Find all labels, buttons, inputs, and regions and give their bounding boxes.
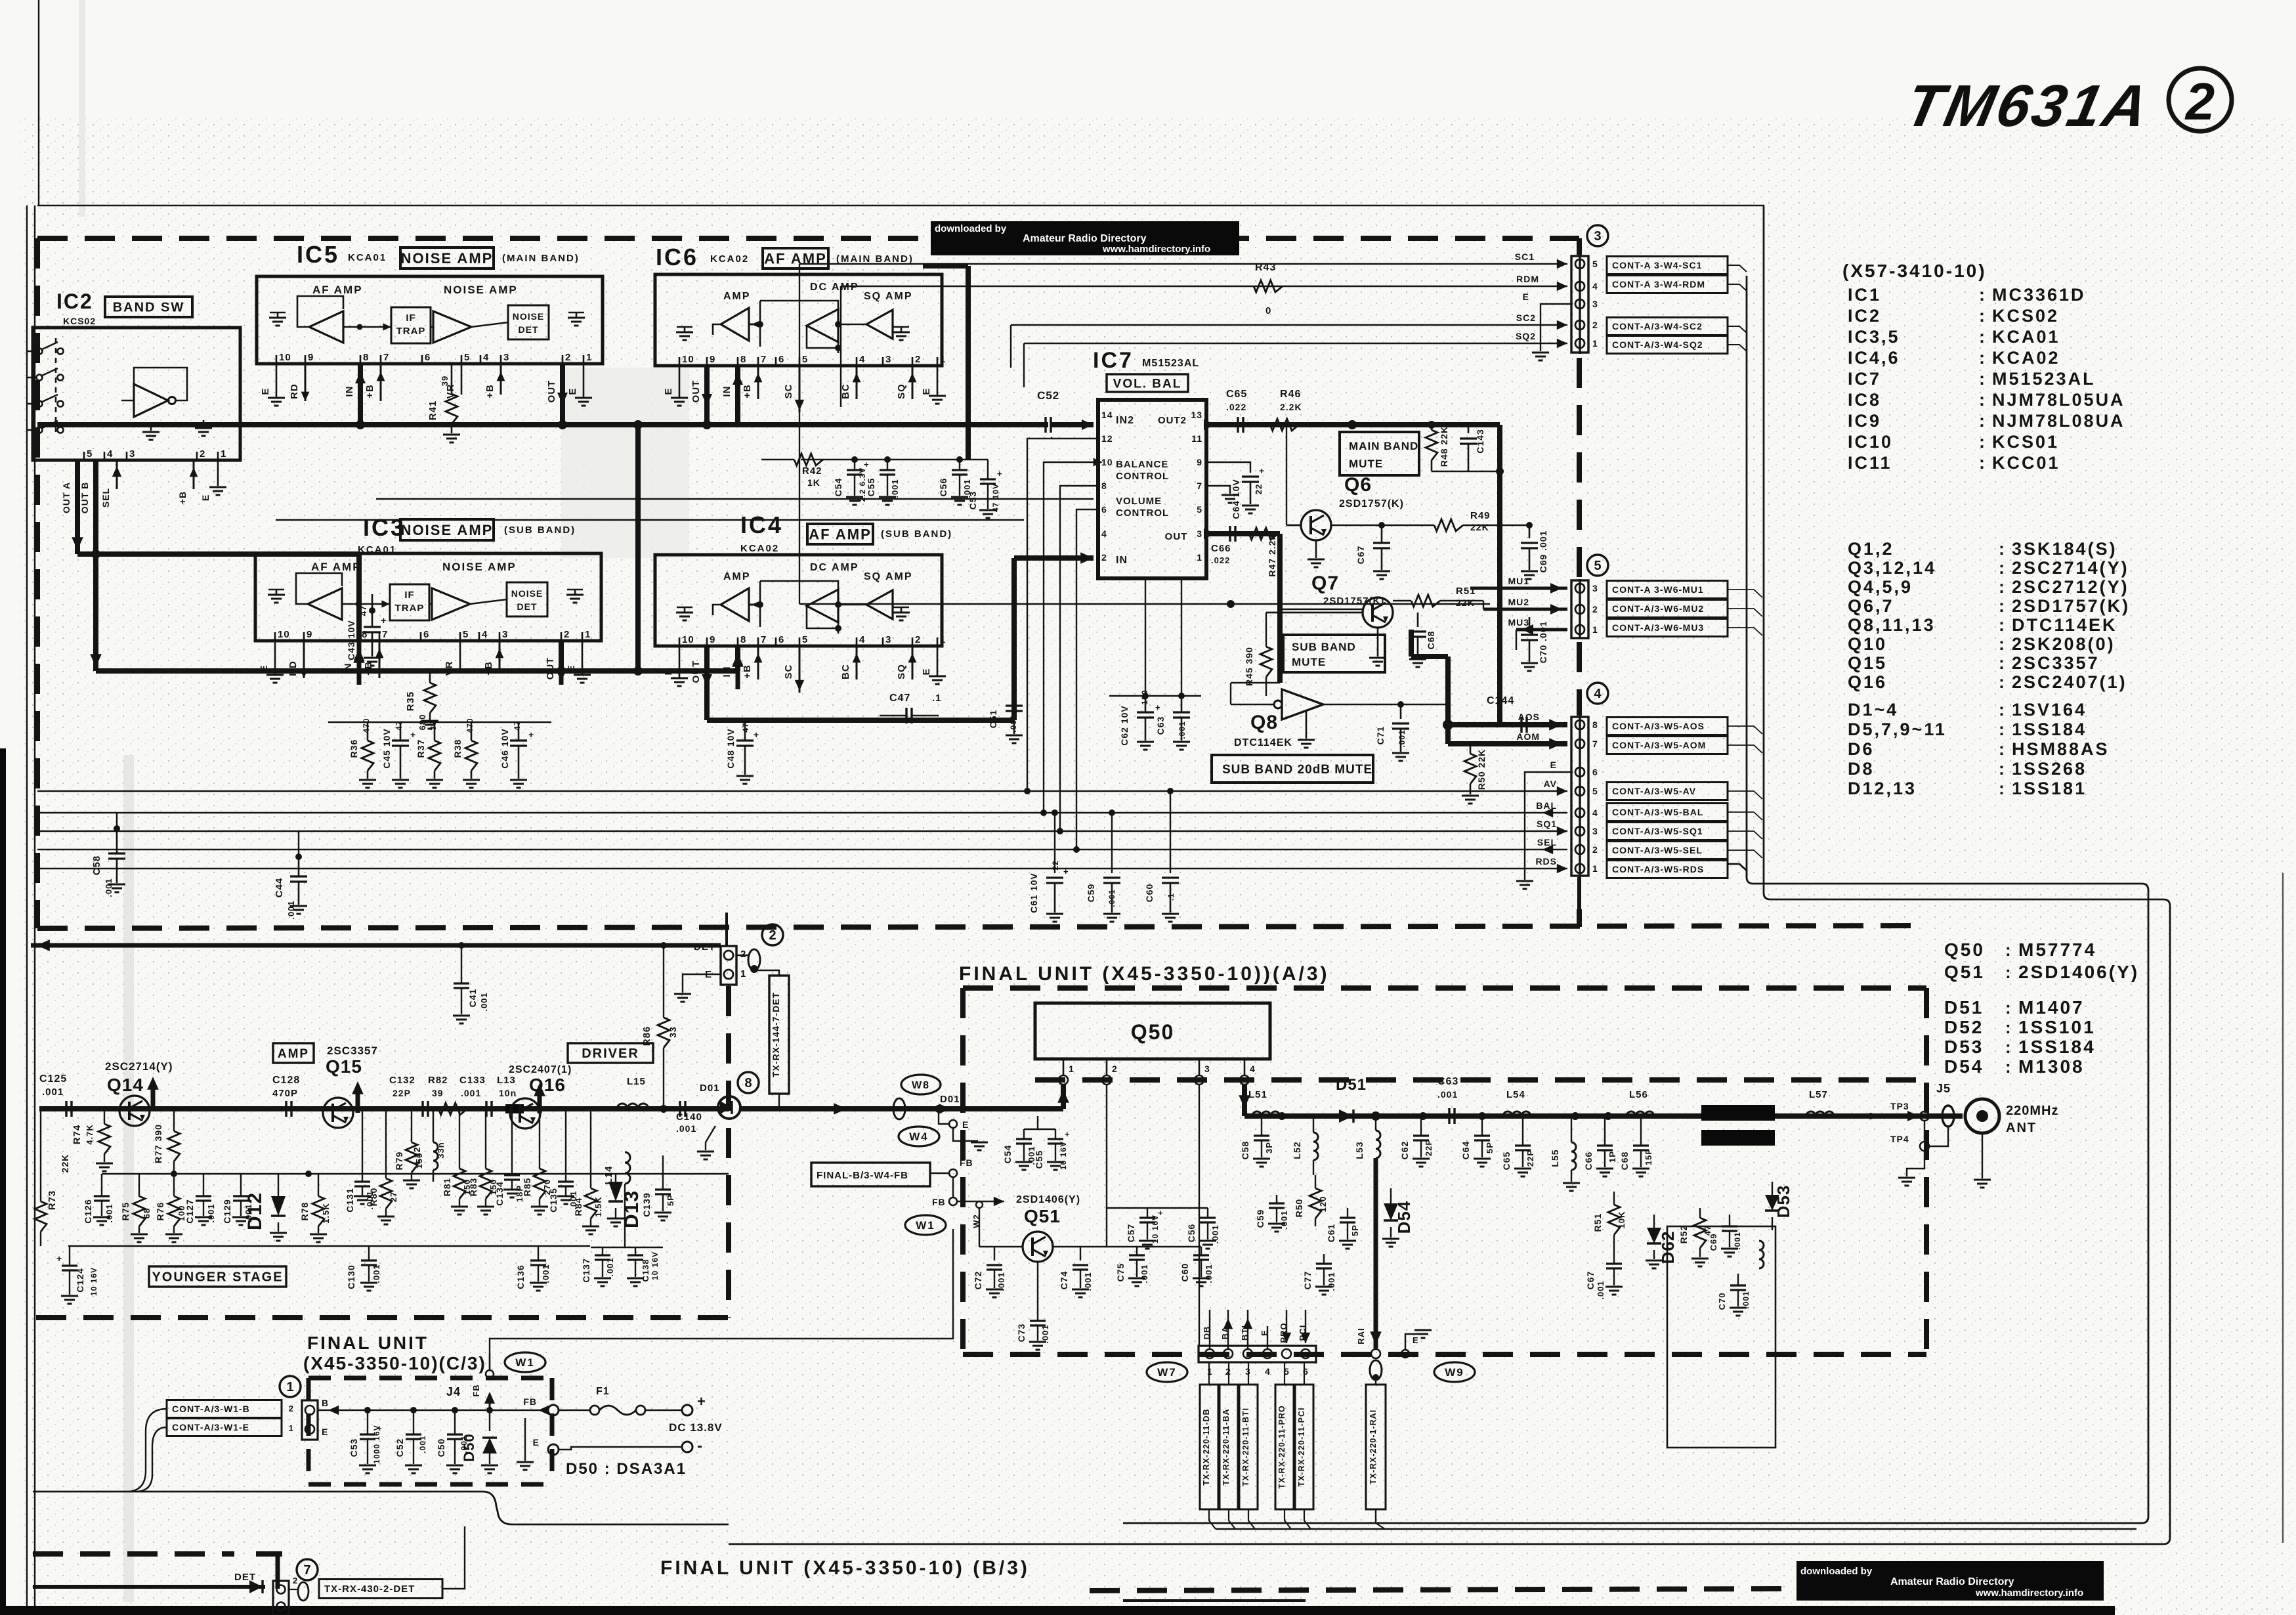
svg-text:C41: C41 [467, 989, 478, 1008]
svg-text:C64 10V: C64 10V [1231, 479, 1241, 519]
svg-text::: : [1999, 720, 2005, 739]
svg-text:W1: W1 [515, 1356, 535, 1369]
svg-text:1SS184: 1SS184 [2018, 1037, 2096, 1057]
svg-text:FB: FB [960, 1157, 973, 1168]
svg-text:7: 7 [761, 354, 767, 365]
svg-text:SC: SC [783, 384, 794, 399]
svg-text:CONT-A 3-W6-MU1: CONT-A 3-W6-MU1 [1612, 584, 1704, 595]
svg-text:2: 2 [1112, 1064, 1118, 1074]
svg-text:3SK184(S): 3SK184(S) [2012, 539, 2117, 559]
svg-text:22P: 22P [393, 1088, 411, 1098]
svg-text:3: 3 [502, 629, 508, 640]
svg-text:OUT A: OUT A [61, 482, 72, 513]
svg-text:15P: 15P [1644, 1148, 1653, 1165]
svg-text:IN: IN [344, 386, 355, 397]
svg-text:2: 2 [200, 448, 205, 460]
svg-text:4: 4 [483, 352, 489, 363]
svg-text:C70 .001: C70 .001 [1538, 621, 1548, 664]
svg-text:BALANCE: BALANCE [1116, 459, 1168, 470]
svg-text:+: + [1065, 1129, 1071, 1139]
svg-text:C43 10V: C43 10V [346, 620, 356, 660]
svg-text:C65: C65 [1501, 1152, 1512, 1171]
svg-text:(SUB BAND): (SUB BAND) [504, 525, 576, 536]
svg-text:Amateur Radio Directory: Amateur Radio Directory [1023, 233, 1147, 244]
svg-text:.001: .001 [1279, 1210, 1289, 1229]
svg-text:W7: W7 [1157, 1366, 1177, 1379]
svg-text:CONT-A/3-W1-E: CONT-A/3-W1-E [172, 1422, 249, 1432]
svg-text:C72: C72 [973, 1271, 983, 1290]
svg-text:D52: D52 [1944, 1017, 1984, 1037]
svg-text:2SD1406(Y): 2SD1406(Y) [2018, 962, 2139, 982]
svg-text:11: 11 [1191, 433, 1202, 444]
svg-text:C56: C56 [938, 478, 948, 497]
svg-text:DET: DET [519, 324, 539, 335]
svg-text:2: 2 [1101, 552, 1107, 563]
svg-text:C137: C137 [581, 1258, 591, 1282]
svg-text:CONT-A/3-W6-MU3: CONT-A/3-W6-MU3 [1612, 622, 1704, 633]
svg-text:R73: R73 [47, 1190, 58, 1211]
svg-text:5: 5 [1592, 786, 1598, 796]
svg-text:R37: R37 [415, 739, 426, 758]
svg-text:Q51: Q51 [1944, 962, 1985, 982]
svg-text::: : [1979, 348, 1986, 368]
svg-text:W8: W8 [912, 1080, 930, 1091]
svg-text:R36: R36 [349, 739, 359, 758]
svg-text:10: 10 [278, 629, 290, 640]
svg-text:22K: 22K [1470, 522, 1489, 532]
svg-text:0: 0 [1265, 305, 1271, 316]
svg-text:1SS101: 1SS101 [2018, 1017, 2096, 1037]
svg-text:IN2: IN2 [1116, 415, 1134, 426]
svg-text::: : [1999, 615, 2005, 635]
svg-text:9: 9 [710, 634, 715, 645]
svg-text:RDM: RDM [1516, 274, 1539, 284]
svg-text:2SC2714(Y): 2SC2714(Y) [105, 1060, 173, 1073]
svg-text:SQ AMP: SQ AMP [864, 291, 913, 302]
svg-text:2: 2 [1592, 320, 1598, 330]
svg-text:downloaded by: downloaded by [935, 223, 1007, 234]
svg-text:IC9: IC9 [1848, 411, 1881, 431]
svg-text:R85: R85 [522, 1178, 532, 1197]
svg-text:C136: C136 [515, 1264, 526, 1289]
svg-text:W9: W9 [1445, 1366, 1464, 1379]
svg-text:8: 8 [363, 352, 369, 363]
svg-text:39: 39 [432, 1088, 444, 1098]
svg-text:5P: 5P [1350, 1224, 1360, 1236]
svg-text:.001: .001 [1139, 1264, 1149, 1283]
svg-text:470: 470 [465, 718, 475, 733]
svg-text:+B: +B [177, 491, 188, 504]
svg-text:+B: +B [364, 384, 375, 398]
svg-text:22P: 22P [1525, 1150, 1535, 1167]
svg-text:W4: W4 [909, 1130, 929, 1143]
svg-text:C59: C59 [1086, 884, 1096, 903]
svg-text:1: 1 [289, 1423, 294, 1433]
svg-text:VOLUME: VOLUME [1116, 496, 1162, 507]
svg-text:C57: C57 [1126, 1224, 1136, 1243]
svg-text:7: 7 [1197, 481, 1202, 491]
svg-text:2: 2 [740, 949, 746, 960]
svg-text:E: E [567, 387, 578, 395]
svg-text:1K: 1K [807, 477, 820, 488]
svg-text:1: 1 [940, 634, 946, 645]
svg-text:5: 5 [802, 354, 808, 365]
svg-text:2SC2714(Y): 2SC2714(Y) [2012, 558, 2129, 578]
svg-text:Q10: Q10 [1848, 634, 1887, 654]
svg-text:IC7: IC7 [1093, 348, 1134, 373]
svg-text:1P: 1P [1607, 1151, 1617, 1163]
svg-text:.001: .001 [890, 479, 900, 498]
svg-text:E: E [921, 668, 932, 675]
svg-text:3P: 3P [1264, 1142, 1274, 1153]
svg-text:47 10V: 47 10V [991, 483, 1000, 512]
svg-text:SQ1: SQ1 [1537, 819, 1557, 829]
svg-text:.001: .001 [541, 1264, 551, 1283]
svg-text:470P: 470P [272, 1088, 298, 1099]
svg-text:AOS: AOS [1518, 712, 1540, 722]
svg-text:R82: R82 [428, 1075, 448, 1086]
svg-text:KCA02: KCA02 [1992, 348, 2060, 368]
svg-text:.001: .001 [42, 1087, 64, 1098]
svg-text:F1: F1 [596, 1386, 610, 1397]
svg-text:2: 2 [1592, 844, 1598, 855]
svg-text:10: 10 [279, 352, 291, 363]
svg-text:TP3: TP3 [1890, 1101, 1909, 1111]
svg-text:IC2: IC2 [56, 290, 93, 313]
svg-text:E: E [663, 387, 674, 395]
svg-text:CONT-A/3-W5-AV: CONT-A/3-W5-AV [1612, 786, 1696, 796]
svg-text:9: 9 [308, 352, 314, 363]
svg-text:C50: C50 [436, 1438, 446, 1457]
svg-text::: : [2005, 940, 2012, 960]
svg-text:33n: 33n [436, 1142, 446, 1158]
svg-text:3: 3 [1204, 1064, 1210, 1074]
svg-text:www.hamdirectory.info: www.hamdirectory.info [1975, 1587, 2083, 1599]
svg-text:Q8: Q8 [1250, 712, 1278, 733]
svg-text:IC3,5: IC3,5 [1848, 327, 1900, 347]
svg-text:R51: R51 [1592, 1213, 1603, 1232]
svg-text:MU1: MU1 [1508, 576, 1529, 586]
svg-text:R79: R79 [394, 1152, 404, 1171]
svg-text:D54: D54 [1944, 1056, 1984, 1077]
svg-text:www.hamdirectory.info: www.hamdirectory.info [1102, 244, 1210, 255]
svg-text:C67: C67 [1355, 546, 1366, 565]
svg-text:C60: C60 [1144, 884, 1155, 903]
svg-text:47: 47 [741, 722, 750, 732]
svg-text:L15: L15 [627, 1076, 646, 1087]
svg-text:1: 1 [1592, 624, 1598, 635]
svg-text:W1: W1 [916, 1219, 935, 1232]
svg-text:3: 3 [1594, 229, 1601, 244]
svg-text:C52: C52 [1037, 389, 1059, 402]
svg-text:D01: D01 [700, 1083, 720, 1094]
svg-text:Q50: Q50 [1944, 939, 1985, 960]
svg-text:SQ: SQ [896, 383, 907, 399]
svg-text:NOISE AMP: NOISE AMP [401, 250, 494, 267]
svg-text::: : [2005, 1018, 2012, 1037]
svg-text:AF AMP: AF AMP [809, 526, 872, 542]
svg-text:OUT2: OUT2 [1158, 415, 1187, 426]
svg-text:Q3,12,14: Q3,12,14 [1848, 558, 1936, 578]
svg-text:C130: C130 [346, 1264, 356, 1289]
svg-text:RDS: RDS [1535, 856, 1557, 867]
svg-text:C129: C129 [222, 1199, 232, 1223]
svg-text:KCA01: KCA01 [358, 544, 396, 555]
svg-text:MC3361D: MC3361D [1992, 285, 2086, 305]
svg-text:2: 2 [564, 629, 570, 640]
svg-text:C60: C60 [1180, 1263, 1190, 1282]
svg-text:E: E [1413, 1335, 1419, 1345]
svg-text:SEL: SEL [1537, 837, 1557, 848]
svg-text:NOISE AMP: NOISE AMP [444, 284, 518, 296]
svg-text:KCA02: KCA02 [740, 543, 779, 554]
svg-text:D01: D01 [940, 1094, 960, 1105]
svg-text:470: 470 [362, 718, 371, 733]
svg-text:IC4,6: IC4,6 [1848, 348, 1900, 368]
svg-text:MU2: MU2 [1508, 597, 1529, 607]
svg-text::: : [1999, 558, 2005, 578]
svg-text:C139: C139 [641, 1192, 652, 1217]
svg-text:L14: L14 [603, 1166, 614, 1185]
svg-text:D8: D8 [1848, 759, 1875, 779]
svg-text:1: 1 [585, 629, 591, 640]
svg-text:120: 120 [1318, 1196, 1328, 1213]
svg-text:Q16: Q16 [1848, 672, 1887, 692]
svg-text:9: 9 [1197, 457, 1202, 467]
svg-text:NOISE: NOISE [511, 588, 543, 599]
svg-text:IC7: IC7 [1848, 369, 1881, 389]
svg-text:C124: C124 [75, 1268, 85, 1292]
svg-text:5: 5 [87, 448, 93, 460]
svg-text:(SUB BAND): (SUB BAND) [881, 528, 952, 540]
svg-text:.001: .001 [1733, 1232, 1742, 1249]
svg-text:C70: C70 [1717, 1293, 1727, 1310]
svg-text::: : [1999, 672, 2005, 692]
svg-text:5P: 5P [1485, 1142, 1495, 1153]
svg-text:C68: C68 [1619, 1152, 1630, 1171]
svg-text:C143: C143 [1475, 429, 1485, 453]
svg-text:22P: 22P [1424, 1139, 1434, 1156]
svg-text:J4: J4 [446, 1385, 461, 1398]
svg-text:BAL: BAL [1536, 800, 1557, 811]
svg-text:R45 390: R45 390 [1244, 647, 1254, 686]
svg-text:.001: .001 [996, 1272, 1006, 1291]
svg-text:5P: 5P [666, 1194, 675, 1206]
svg-text:2SC2712(Y): 2SC2712(Y) [2012, 577, 2129, 597]
svg-text:.1: .1 [1166, 893, 1176, 901]
svg-text:OUT: OUT [691, 380, 702, 403]
svg-text:Q7: Q7 [1311, 572, 1339, 594]
svg-text:2SC2407(1): 2SC2407(1) [2012, 672, 2127, 692]
svg-text:.001: .001 [1178, 721, 1187, 739]
svg-text:DTC114EK: DTC114EK [1234, 737, 1292, 748]
svg-text:6: 6 [423, 629, 429, 640]
svg-text:RD: RD [289, 383, 300, 399]
svg-text:7: 7 [303, 1563, 310, 1578]
svg-text:C61: C61 [1326, 1224, 1336, 1243]
svg-text:D1~4: D1~4 [1848, 700, 1898, 720]
svg-text:3: 3 [885, 354, 891, 365]
svg-text::: : [1999, 653, 2005, 673]
svg-text:C51: C51 [988, 710, 998, 729]
svg-text:IC11: IC11 [1848, 453, 1892, 473]
svg-text:.022: .022 [1226, 402, 1246, 412]
svg-text:TP4: TP4 [1890, 1134, 1909, 1144]
svg-text:J5: J5 [1936, 1082, 1951, 1095]
svg-text:D12,13: D12,13 [1848, 779, 1917, 798]
svg-text:C69: C69 [1709, 1234, 1718, 1251]
svg-text:BAND SW: BAND SW [113, 301, 185, 315]
svg-text:IC1: IC1 [1848, 285, 1881, 305]
svg-text:+: + [864, 460, 870, 469]
svg-text:C68: C68 [1426, 631, 1436, 650]
svg-text:Q6: Q6 [1344, 474, 1372, 496]
svg-text:R46: R46 [1280, 389, 1301, 400]
svg-text:8: 8 [744, 1076, 752, 1090]
svg-text:DRIVER: DRIVER [582, 1046, 639, 1061]
svg-text:M1407: M1407 [2018, 997, 2085, 1018]
svg-text:3: 3 [885, 634, 891, 645]
svg-text:.001: .001 [1009, 714, 1018, 732]
svg-text:E: E [533, 1437, 540, 1448]
svg-text:2.2K: 2.2K [1280, 402, 1302, 412]
svg-text:C62 10V: C62 10V [1119, 705, 1130, 745]
svg-text:6: 6 [1101, 504, 1107, 515]
svg-text:5: 5 [1592, 259, 1598, 269]
svg-text:(X57-3410-10): (X57-3410-10) [1842, 261, 1987, 281]
svg-text::: : [2005, 998, 2012, 1018]
svg-text:IC6: IC6 [656, 244, 698, 270]
svg-text:1: 1 [221, 448, 226, 460]
svg-text:C59: C59 [1255, 1209, 1265, 1228]
svg-text:2: 2 [289, 1404, 294, 1413]
svg-text:5: 5 [463, 629, 469, 640]
svg-text:TX-RX-220-11-BTI: TX-RX-220-11-BTI [1241, 1408, 1250, 1486]
svg-text:C140: C140 [676, 1111, 702, 1123]
svg-text::: : [1999, 759, 2005, 779]
svg-text:HSM88AS: HSM88AS [2012, 739, 2110, 759]
svg-text:C66: C66 [1583, 1152, 1594, 1171]
svg-text:7: 7 [761, 634, 767, 645]
svg-text:MUTE: MUTE [1292, 656, 1326, 668]
svg-text:FB: FB [932, 1197, 946, 1207]
svg-text:R52: R52 [1678, 1225, 1689, 1244]
svg-text:C67: C67 [1585, 1271, 1596, 1290]
svg-text:KCS02: KCS02 [1992, 306, 2059, 326]
svg-text:R38: R38 [452, 739, 463, 758]
svg-text:C48 10V: C48 10V [725, 728, 736, 768]
svg-text:SQ: SQ [896, 664, 907, 679]
svg-text:C44: C44 [274, 878, 285, 898]
svg-text:KCA01: KCA01 [1992, 327, 2060, 347]
svg-text:47: 47 [358, 605, 368, 616]
svg-text:E: E [1550, 760, 1557, 770]
svg-text:10n: 10n [499, 1088, 517, 1098]
svg-text:L55: L55 [1550, 1149, 1560, 1167]
svg-text:KCS02: KCS02 [63, 316, 96, 326]
svg-text:SC2: SC2 [1516, 312, 1536, 323]
svg-text:8: 8 [1101, 481, 1107, 491]
svg-text:TX-RX-220-11-BA: TX-RX-220-11-BA [1222, 1408, 1231, 1485]
svg-text:2SC3357: 2SC3357 [2012, 653, 2100, 673]
svg-text:AF AMP: AF AMP [311, 561, 362, 573]
svg-text:1.5K: 1.5K [593, 1196, 603, 1217]
svg-text:TRAP: TRAP [396, 326, 426, 337]
svg-text:YOUNGER STAGE: YOUNGER STAGE [152, 1270, 283, 1285]
svg-text:C54: C54 [833, 478, 843, 497]
svg-text:2SD1757(K): 2SD1757(K) [2012, 596, 2130, 616]
svg-text:.001: .001 [1741, 1291, 1751, 1308]
svg-text:220MHz: 220MHz [2006, 1104, 2058, 1118]
svg-text:6: 6 [778, 634, 784, 645]
svg-text:C77: C77 [1302, 1271, 1313, 1290]
svg-text:TX-RX-220-11-DB: TX-RX-220-11-DB [1202, 1408, 1211, 1485]
svg-text:R86: R86 [641, 1026, 652, 1046]
svg-text:10 16V: 10 16V [650, 1251, 660, 1280]
svg-text:DET: DET [517, 601, 538, 612]
svg-text:3: 3 [1592, 583, 1598, 593]
svg-text:TX-RX-144-7-DET: TX-RX-144-7-DET [771, 992, 781, 1077]
svg-text:12: 12 [1101, 433, 1113, 444]
svg-text:2SC3357: 2SC3357 [327, 1044, 378, 1057]
svg-text:.001: .001 [1397, 729, 1407, 747]
svg-text:7: 7 [1592, 739, 1598, 749]
svg-text:1: 1 [1197, 552, 1202, 563]
svg-text:KCS01: KCS01 [1992, 432, 2059, 452]
svg-text:DET: DET [234, 1572, 256, 1583]
svg-text:C53: C53 [349, 1438, 359, 1457]
svg-text:L52: L52 [1292, 1141, 1302, 1159]
svg-text:ANT: ANT [2006, 1121, 2037, 1135]
svg-text:DC AMP: DC AMP [810, 562, 859, 573]
svg-text::: : [1979, 285, 1986, 305]
svg-text:5: 5 [1594, 559, 1601, 573]
svg-text:R43: R43 [1255, 262, 1276, 273]
svg-text:1: 1 [586, 352, 592, 363]
svg-text:D50 : DSA3A1: D50 : DSA3A1 [566, 1460, 687, 1478]
svg-text::: : [1979, 390, 1986, 410]
svg-text:4: 4 [1592, 807, 1598, 818]
svg-text::: : [1979, 306, 1986, 326]
svg-text:.001: .001 [286, 900, 296, 919]
svg-text:E: E [322, 1427, 328, 1437]
svg-text:100: 100 [1140, 689, 1149, 704]
svg-text:SEL: SEL [100, 488, 111, 507]
svg-text:.001: .001 [479, 992, 489, 1011]
svg-text:CONT-A/3-W6-MU2: CONT-A/3-W6-MU2 [1612, 603, 1704, 614]
svg-text:MU3: MU3 [1508, 617, 1529, 628]
svg-text:C131: C131 [345, 1188, 355, 1212]
svg-text:Q6,7: Q6,7 [1848, 596, 1894, 616]
svg-text:.001: .001 [1596, 1280, 1605, 1299]
svg-text:7: 7 [382, 629, 388, 640]
svg-text:C133: C133 [459, 1075, 486, 1086]
svg-text:downloaded by: downloaded by [1800, 1566, 1873, 1577]
svg-text:1SS184: 1SS184 [2012, 720, 2087, 739]
svg-text:AMP: AMP [723, 291, 751, 302]
svg-text:C63: C63 [1437, 1076, 1458, 1087]
svg-text:SUB BAND: SUB BAND [1292, 641, 1356, 653]
svg-text:TX-RX-220-11-PRO: TX-RX-220-11-PRO [1277, 1405, 1286, 1488]
svg-text::: : [2005, 1057, 2012, 1077]
svg-text:.001: .001 [605, 1257, 615, 1276]
svg-text:TRAP: TRAP [395, 603, 425, 614]
svg-text:.001: .001 [104, 1203, 114, 1222]
svg-text:.1: .1 [932, 693, 942, 704]
svg-text:.001: .001 [206, 1203, 216, 1222]
svg-text:R74: R74 [72, 1125, 83, 1145]
svg-text:CONTROL: CONTROL [1116, 507, 1169, 519]
